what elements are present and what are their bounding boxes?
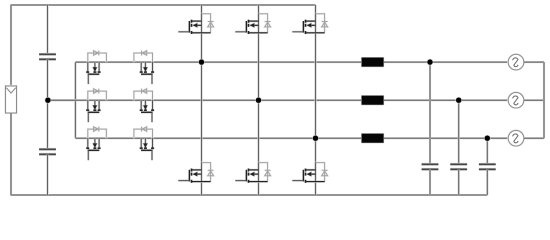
inductor L1 (phase A filter) bbox=[362, 58, 384, 67]
source Vg1 (AC grid source phase A) bbox=[508, 54, 524, 70]
wire phase C source to right bus bbox=[524, 137, 544, 139]
wire phase A source to right bus bbox=[524, 61, 544, 63]
capacitor Cf3 (phase C filter) bbox=[479, 164, 496, 169]
transistor Q2L (bottom leg 2) bbox=[235, 163, 270, 183]
wire phase A to grid bbox=[384, 61, 509, 63]
wire left source branch upper bbox=[10, 5, 12, 86]
transistor Q3H (top leg 3) bbox=[292, 14, 327, 34]
source Vg2 (AC grid source phase B) bbox=[508, 92, 524, 108]
transistor QC1 (bidir switch left, phase C) bbox=[86, 127, 106, 161]
transistor QA2 (bidir switch right, phase A) bbox=[134, 51, 154, 85]
wire phase A cap branch upper bbox=[429, 62, 431, 164]
wire leg 3 vertical bbox=[314, 5, 316, 195]
capacitor C2 (lower DC-link) bbox=[39, 149, 56, 154]
wire phase C cap branch lower bbox=[486, 169, 488, 195]
capacitor C1 (upper DC-link) bbox=[39, 54, 56, 59]
node phase C / leg 3 junction bbox=[313, 136, 318, 141]
inductor L3 (phase C filter) bbox=[362, 134, 384, 143]
wire phase B cap branch lower bbox=[458, 169, 460, 195]
wire top DC+ rail bbox=[11, 4, 316, 6]
wire DC-link lower bbox=[46, 154, 48, 195]
wire phase B cap branch upper bbox=[458, 100, 460, 164]
transistor Q1H (top leg 1) bbox=[178, 14, 213, 34]
wire phase A row bbox=[75, 61, 361, 63]
transistor QA1 (bidir switch left, phase A) bbox=[86, 51, 106, 85]
wire midpoint to bus bbox=[48, 99, 76, 101]
transistor QB1 (bidir switch left, phase B) bbox=[86, 89, 106, 123]
node phase A / leg 1 junction bbox=[199, 59, 204, 64]
node phase A filter junction bbox=[427, 59, 432, 64]
transistor Q1L (bottom leg 1) bbox=[178, 163, 213, 183]
node phase B / leg 2 junction bbox=[256, 98, 261, 103]
wire right neutral bus bbox=[543, 62, 545, 138]
transistor Q3L (bottom leg 3) bbox=[292, 163, 327, 183]
wire left source branch lower bbox=[10, 113, 12, 195]
wire phase C cap branch upper bbox=[486, 138, 488, 164]
transistor QB2 (bidir switch right, phase B) bbox=[134, 89, 154, 123]
source V1 (DC source box) bbox=[6, 86, 17, 113]
capacitor Cf1 (phase A filter) bbox=[422, 164, 439, 169]
wire phase C to grid bbox=[384, 137, 509, 139]
wire phase B source to right bus bbox=[524, 99, 544, 101]
wire phase B to grid bbox=[384, 99, 509, 101]
wire neutral bus vertical bbox=[74, 62, 76, 138]
wire phase C row bbox=[75, 137, 361, 139]
node phase C filter junction bbox=[485, 136, 490, 141]
wire leg 2 vertical bbox=[257, 5, 259, 195]
node phase B filter junction bbox=[456, 98, 461, 103]
transistor Q2H (top leg 2) bbox=[235, 14, 270, 34]
inductor L2 (phase B filter) bbox=[362, 96, 384, 105]
wire bottom DC- rail bbox=[11, 194, 488, 196]
source Vg3 (AC grid source phase C) bbox=[508, 130, 524, 146]
node DC midpoint junction bbox=[45, 98, 50, 103]
wire leg 1 vertical bbox=[200, 5, 202, 195]
wire DC-link upper bbox=[46, 5, 48, 54]
wire phase A cap branch lower bbox=[429, 169, 431, 195]
wire phase B row bbox=[48, 99, 362, 101]
capacitor Cf2 (phase B filter) bbox=[450, 164, 467, 169]
transistor QC2 (bidir switch right, phase C) bbox=[134, 127, 154, 161]
wire DC-link middle bbox=[46, 59, 48, 149]
